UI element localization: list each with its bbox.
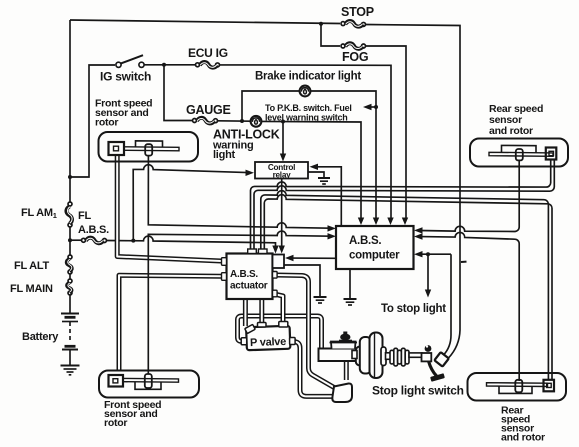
svg-text:A.B.S.: A.B.S. bbox=[78, 224, 109, 236]
svg-text:P valve: P valve bbox=[250, 336, 287, 349]
svg-text:A.B.S.: A.B.S. bbox=[230, 269, 258, 280]
svg-text:Brake indicator light: Brake indicator light bbox=[255, 71, 361, 83]
svg-text:FL: FL bbox=[78, 210, 91, 222]
pedal rod bbox=[409, 353, 422, 357]
ground: actuator sub-connector ground bbox=[314, 297, 327, 303]
wire: relay feed riser and line to control relay (hop over sensor wire) bbox=[133, 165, 254, 241]
lamp: ANTI-LOCK warning light bulb bbox=[251, 116, 262, 127]
svg-text:Stop light switch: Stop light switch bbox=[372, 384, 464, 398]
pipe: actuator bottom stub 1 to P valve bbox=[243, 299, 248, 326]
pipe: actuator right tab down to flexible hose (P1) bbox=[276, 275, 335, 388]
relay U1: control relay box bbox=[255, 162, 308, 179]
pipe: P valve right port down to flexible hose (P3) bbox=[293, 342, 334, 397]
wire: FL A.B.S. output to actuator sub-connector (with hop over sensor wire) bbox=[107, 236, 279, 253]
fuse STOP bbox=[341, 21, 366, 27]
svg-text:actuator: actuator bbox=[230, 281, 268, 292]
box: rounded housing front speed sensor and rotor (lower left) bbox=[99, 371, 199, 398]
arrows into computer top (from STOP/FOG/ECU IG/GAUGE circuits) bbox=[358, 218, 408, 226]
wire: computer ground lead bbox=[349, 269, 351, 298]
wire: control relay right side feed bbox=[310, 164, 342, 226]
stray dash mark right of computer bbox=[461, 261, 467, 263]
fuse FOG bbox=[341, 43, 366, 49]
svg-text:light: light bbox=[213, 149, 236, 161]
fusible link FL ALT bbox=[67, 255, 72, 274]
lamp: brake indicator light bulb bbox=[300, 86, 311, 97]
battery bbox=[61, 314, 79, 366]
svg-text:rotor: rotor bbox=[104, 417, 127, 429]
wire: rear-upper sensor signal to computer right arrow (hop over stop line) bbox=[414, 160, 519, 234]
bellows between booster and pedal rod bbox=[386, 348, 410, 366]
brake booster bbox=[356, 333, 386, 379]
actuator top connector tabs bbox=[248, 249, 267, 254]
node: junction anti-lock line / control relay drop bbox=[281, 120, 285, 124]
svg-text:computer: computer bbox=[349, 250, 400, 262]
wire: computer right output to stop light switch bbox=[414, 251, 451, 355]
svg-text:and rotor: and rotor bbox=[501, 432, 545, 444]
wire: actuator sub-connector to ground bbox=[284, 265, 320, 296]
fusible link FL AM1 bbox=[66, 202, 72, 227]
wire: FOG branch bbox=[321, 24, 406, 218]
wire: bundle L1 rear-upper sensor pair line 1 bbox=[251, 160, 551, 250]
wire: arrow to P.K.B. switch note bbox=[363, 104, 376, 110]
booster pushrod to master cylinder bbox=[352, 351, 357, 359]
wire: bundle L3 rear-lower sensor pair line 1 bbox=[261, 191, 549, 380]
svg-text:ECU IG: ECU IG bbox=[188, 46, 228, 60]
svg-text:relay: relay bbox=[273, 170, 292, 179]
wire: second lead from stop light switch up to STOP circuit bbox=[449, 330, 461, 358]
box: actuator sub-connector (relay/computer feeds) bbox=[273, 255, 285, 269]
pipe: P valve left port up and over to master cylinder (P2) bbox=[238, 316, 322, 350]
brake pedal arm and pad bbox=[429, 361, 445, 382]
wire: front upper speed sensor pair to actuator left upper tab bbox=[117, 156, 221, 262]
ground: computer ground bbox=[344, 299, 357, 305]
wire: computer left output to actuator sub-connector (arrow into right side) bbox=[285, 255, 336, 261]
svg-text:rotor: rotor bbox=[95, 117, 118, 129]
master cylinder reservoir cap bbox=[339, 332, 352, 341]
ground: battery ground bbox=[61, 366, 80, 375]
svg-text:FL AM1: FL AM1 bbox=[21, 207, 57, 220]
box: rounded housing front speed sensor and rotor (upper left) bbox=[99, 132, 199, 162]
box: P valve bbox=[246, 326, 290, 351]
front upper sensor internals: pickup square, axle bar, rotor, element bbox=[109, 141, 180, 156]
fusible link FL MAIN bbox=[67, 279, 72, 295]
stop light switch contact knob bbox=[425, 345, 432, 352]
svg-text:and rotor: and rotor bbox=[489, 125, 533, 137]
pipe: actuator lower-right tab to P valve right port bbox=[274, 294, 283, 322]
master cylinder body bbox=[319, 342, 358, 362]
wire: front upper sensor signal to computer (left arrow A) bbox=[148, 156, 336, 232]
fuse ECU IG bbox=[196, 62, 220, 68]
wire: front lower speed sensor pair to actuator left lower tab bbox=[119, 275, 221, 371]
wire: brake indicator light loop bbox=[242, 91, 376, 218]
wire: drop to GAUGE fuse bbox=[164, 65, 192, 121]
wire: rear-lower sensor signal to computer right arrow (hop over stop line) bbox=[414, 232, 519, 381]
fuse GAUGE bbox=[193, 118, 218, 124]
stop light switch body (angled) bbox=[434, 352, 448, 366]
actuator left connector tabs bbox=[222, 258, 227, 281]
pipe: master cylinder bottom port to flexible hose (P6) bbox=[344, 360, 349, 380]
wire: control relay output down to actuator sub-connector (hops drawn on bundle) bbox=[279, 178, 285, 254]
node: junction GAUGE line / brake-indicator drop bbox=[240, 119, 244, 123]
box: rounded housing rear speed sensor and rotor (lower right) bbox=[468, 373, 567, 401]
svg-text:STOP: STOP bbox=[341, 5, 374, 19]
wire: bundle L4 rear-lower sensor pair line 2 bbox=[264, 195, 552, 380]
P valve ports bbox=[241, 322, 295, 345]
node: junction on brake-light drop for P.K.B. tap bbox=[374, 105, 378, 109]
svg-text:A.B.S.: A.B.S. bbox=[349, 235, 381, 247]
svg-text:GAUGE: GAUGE bbox=[186, 103, 231, 117]
wire: battery positive rail from top-left corner down left side bbox=[69, 20, 71, 313]
box: A.B.S. actuator bbox=[227, 254, 273, 300]
svg-text:FL ALT: FL ALT bbox=[14, 260, 49, 272]
svg-text:To stop light: To stop light bbox=[381, 303, 446, 315]
svg-text:To P.K.B. switch. Fuel: To P.K.B. switch. Fuel bbox=[265, 103, 352, 113]
wire: drop into control relay with arrow bbox=[280, 122, 286, 162]
wire: IG switch to ECU IG fuse and brake light box top bbox=[145, 65, 392, 218]
pipe: actuator bottom stub 2 to P valve bbox=[259, 299, 264, 324]
node: junction STOP/FOG branch bbox=[319, 22, 323, 26]
front lower sensor internals bbox=[109, 374, 179, 389]
wire: control relay ground lead bbox=[308, 172, 324, 177]
box: A.B.S. computer bbox=[336, 226, 414, 269]
actuator right pipe tabs bbox=[273, 272, 278, 297]
wire: GAUGE line through ANTI-LOCK warning light to computer bbox=[218, 121, 361, 218]
IG switch contacts and lever bbox=[116, 55, 144, 67]
svg-text:level warning switch: level warning switch bbox=[265, 113, 348, 123]
svg-text:IG switch: IG switch bbox=[100, 70, 151, 84]
node: junction ECU IG / GAUGE drop bbox=[162, 63, 166, 67]
ground: control relay ground bbox=[318, 178, 330, 184]
wire: STOP feed along top bbox=[70, 20, 460, 330]
wire: front lower sensor signal to computer (left arrow B) bbox=[148, 231, 336, 374]
svg-text:Battery: Battery bbox=[22, 331, 59, 343]
node: junction battery rail / IG riser bbox=[68, 175, 72, 179]
wire: bundle L2 rear-upper sensor pair line 2 bbox=[254, 160, 554, 250]
stop light switch assembly: mount block bbox=[422, 353, 432, 361]
flexible hose junction (wedge) bbox=[332, 383, 352, 402]
rear upper sensor internals bbox=[489, 145, 556, 160]
fusible link FL A.B.S. with feed wire bbox=[68, 238, 107, 244]
wire: IG switch feed riser bbox=[70, 65, 115, 177]
node: junction FL A.B.S. / relay feed riser bbox=[131, 239, 135, 243]
rear lower sensor internals bbox=[487, 380, 555, 394]
box: rounded housing rear speed sensor and rotor (upper right) bbox=[470, 139, 568, 167]
svg-text:FOG: FOG bbox=[342, 50, 368, 64]
node: junction on stop-light output bbox=[426, 252, 430, 256]
svg-text:FL MAIN: FL MAIN bbox=[10, 283, 53, 295]
